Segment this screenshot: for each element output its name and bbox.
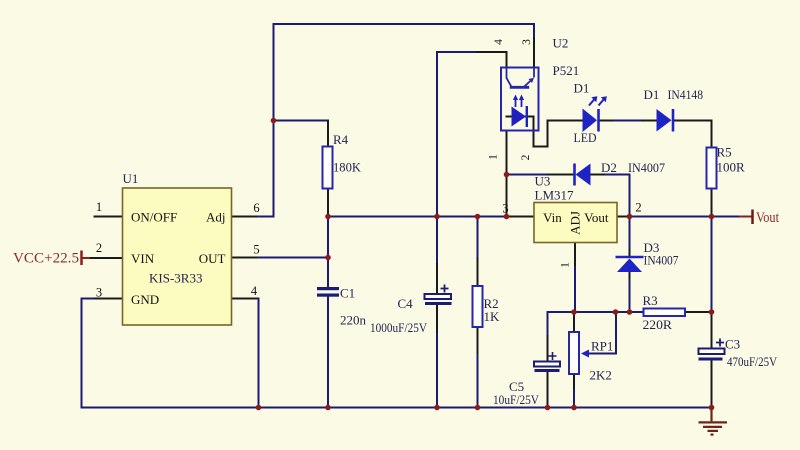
capacitor C1 (317, 286, 367, 328)
svg-text:IN4148: IN4148 (668, 87, 704, 102)
node R4 bottom (325, 214, 331, 220)
svg-text:1K: 1K (484, 309, 501, 324)
svg-text:220n: 220n (340, 313, 367, 328)
resistor R2 (473, 286, 501, 327)
wire main row y=216 R4 bottom to U3 Vin (328, 216, 534, 218)
diode D1 IN4148 (644, 87, 704, 132)
wire opto pin4 branch (437, 52, 507, 217)
svg-text:Vout: Vout (756, 210, 780, 226)
svg-text:D1: D1 (574, 81, 590, 96)
ground (699, 408, 728, 435)
svg-text:220R: 220R (643, 317, 673, 332)
wire C5 branch (547, 312, 549, 408)
svg-text:1: 1 (488, 154, 500, 160)
svg-text:470uF/25V: 470uF/25V (727, 354, 778, 369)
wire opto pin2 zigzag to LED D1 (507, 117, 583, 147)
svg-text:2: 2 (96, 241, 102, 255)
svg-text:U2: U2 (553, 36, 569, 51)
svg-text:P521: P521 (553, 63, 580, 78)
wire R5 node down to R3/C3 node (711, 217, 713, 408)
node R2 top (475, 214, 481, 220)
svg-text:KIS-3R33: KIS-3R33 (149, 271, 202, 286)
node A (Adj/R4 top) (271, 118, 277, 124)
diode D2 IN4007 (575, 160, 666, 186)
wire opto pin1 down to node (506, 131, 508, 217)
wire U3 ADJ pin down (574, 243, 576, 313)
svg-text:1000uF/25V: 1000uF/25V (370, 320, 428, 335)
svg-text:C3: C3 (725, 337, 740, 352)
svg-text:LED: LED (574, 130, 597, 145)
svg-text:ADJ: ADJ (568, 211, 583, 235)
svg-text:U1: U1 (123, 171, 139, 186)
wire U1 pin1 stub (95, 216, 123, 218)
node ADJ/RP1 (571, 309, 577, 315)
svg-text:VCC+22.5: VCC+22.5 (13, 251, 79, 267)
node OUT/C1 (325, 255, 331, 261)
node wiper (613, 309, 619, 315)
svg-text:6: 6 (253, 201, 259, 215)
svg-text:ON/OFF: ON/OFF (131, 210, 177, 225)
capacitor C5 (polarized) (493, 352, 560, 407)
svg-text:5: 5 (253, 243, 259, 257)
svg-text:D2: D2 (601, 160, 617, 175)
svg-text:IN4007: IN4007 (628, 160, 665, 175)
resistor R4 (323, 132, 362, 189)
node opto pin1 / D2 (504, 172, 510, 178)
svg-text:RP1: RP1 (591, 339, 613, 354)
potentiometer RP1 (569, 332, 613, 383)
U3 pin numbers (502, 201, 641, 268)
svg-text:3: 3 (96, 286, 102, 300)
svg-text:R4: R4 (333, 132, 349, 147)
wire U1 OUT pin5 to C1 (232, 257, 329, 259)
wire R2 branch (477, 217, 479, 408)
svg-text:4: 4 (251, 284, 258, 298)
svg-text:100R: 100R (717, 160, 746, 175)
capacitor C3 (polarized) (699, 337, 778, 370)
svg-text:U3: U3 (535, 174, 551, 189)
node bus R2 (475, 405, 481, 411)
optocoupler U2 P521 (501, 36, 579, 131)
diode D1 LED (574, 81, 607, 146)
svg-text:2: 2 (520, 154, 532, 160)
svg-text:3: 3 (502, 202, 508, 216)
resistor R5 (707, 145, 746, 189)
svg-text:R3: R3 (643, 293, 658, 308)
svg-text:1: 1 (96, 200, 102, 214)
svg-text:GND: GND (131, 292, 159, 307)
svg-text:LM317: LM317 (535, 188, 575, 203)
regulator U3 LM317 box (534, 174, 617, 243)
node bus ground (709, 405, 715, 411)
svg-text:Vin: Vin (543, 210, 562, 225)
svg-text:1: 1 (560, 262, 572, 268)
diode D3 IN4007 (616, 240, 679, 272)
svg-text:2: 2 (635, 201, 641, 215)
node Vout port (753, 210, 780, 227)
U1 pin numbers (96, 200, 260, 300)
node bus pin4 (256, 405, 262, 411)
svg-text:2K2: 2K2 (590, 368, 612, 383)
wire U1 pin2 stub from VCC port (82, 257, 123, 259)
node R3/C3 (709, 309, 715, 315)
wire bottom bus (82, 407, 712, 409)
wire ADJ row y=312 (548, 311, 712, 313)
svg-text:C1: C1 (340, 286, 355, 301)
wire C4 branch (436, 217, 438, 408)
svg-text:Vout: Vout (584, 210, 609, 225)
node C4 top (434, 214, 440, 220)
node R5 bottom (709, 214, 715, 220)
node bus C5 (545, 405, 551, 411)
wire RP1 wiper up to row (590, 312, 616, 354)
svg-text:OUT: OUT (199, 251, 226, 266)
node U3 Vin (504, 214, 510, 220)
svg-text:C4: C4 (398, 296, 414, 311)
svg-text:D1: D1 (644, 87, 660, 102)
node U3 Vout (627, 214, 633, 220)
wire C1 vertical (327, 217, 329, 408)
svg-text:Adj: Adj (206, 210, 226, 225)
wire D3 vertical (629, 217, 631, 313)
svg-text:IN4007: IN4007 (644, 253, 679, 268)
svg-text:180K: 180K (333, 160, 362, 175)
node bus RP1 (571, 405, 577, 411)
svg-text:10uF/25V: 10uF/25V (493, 392, 540, 407)
capacitor C4 (polarized) (370, 285, 452, 336)
wire U1 pin4 to bus (232, 299, 259, 408)
wire Vout row (617, 216, 752, 218)
resistor R3 (643, 293, 686, 332)
wire R4 branch from node A to R4 (274, 121, 329, 217)
U2 rotated pin numbers (488, 39, 533, 161)
wire Adj net: U1 pin6 up and across top to opto pin3 (232, 24, 535, 217)
wire diode to R5 (674, 121, 712, 217)
node bus C1 (325, 405, 331, 411)
wire U1 GND pin3 to bus (82, 299, 123, 408)
wire LED to diode IN4148 (600, 120, 657, 122)
regulator U1 KIS-3R33 (123, 171, 232, 325)
wire RP1 leads (573, 312, 575, 408)
wire D2 row (507, 175, 630, 217)
node D3 anode (627, 309, 633, 315)
svg-text:R5: R5 (717, 145, 732, 160)
svg-text:3: 3 (521, 39, 533, 45)
node VCC+22.5 port (13, 251, 82, 267)
svg-text:VIN: VIN (131, 251, 155, 266)
svg-text:4: 4 (493, 39, 505, 45)
node bus C4 (434, 405, 440, 411)
